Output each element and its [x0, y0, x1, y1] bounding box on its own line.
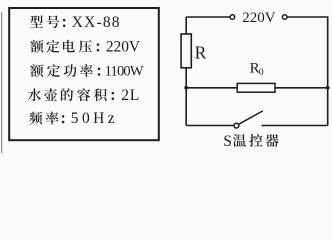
svg-text:220V: 220V — [106, 38, 141, 55]
svg-text:50Hz: 50Hz — [71, 110, 118, 127]
svg-text:1100W: 1100W — [105, 63, 144, 79]
svg-text:S: S — [223, 133, 232, 150]
svg-text:0: 0 — [259, 68, 264, 78]
svg-text:R: R — [195, 43, 207, 63]
svg-text:2L: 2L — [121, 87, 140, 104]
svg-text:XX-88: XX-88 — [72, 14, 121, 31]
svg-text:220V: 220V — [242, 10, 276, 26]
